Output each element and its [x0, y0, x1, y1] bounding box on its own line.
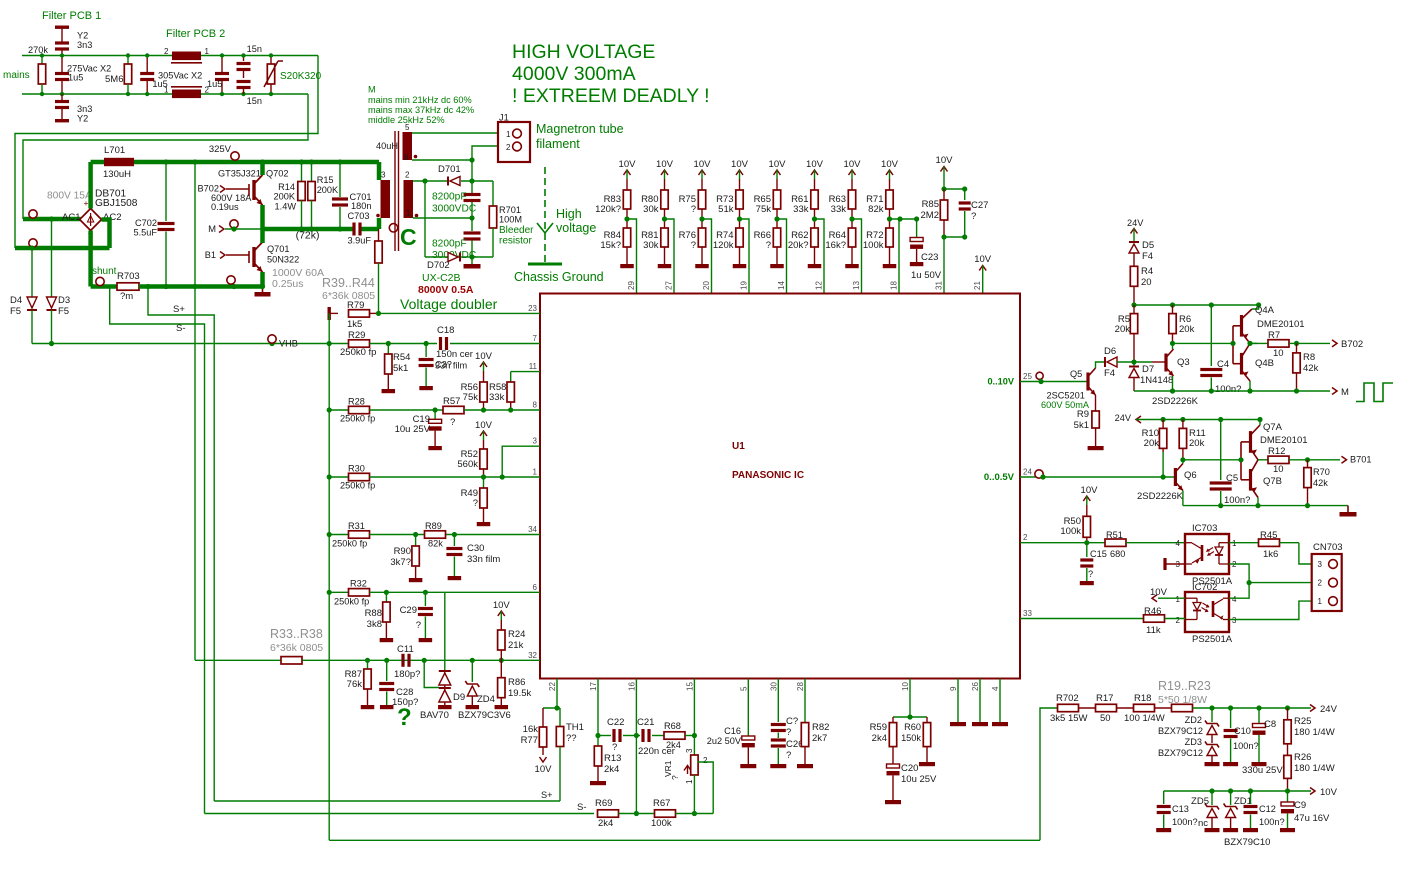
capacitor C701 180n	[339, 162, 341, 197]
ground R76	[701, 247, 703, 264]
wire pin3 row	[502, 446, 540, 477]
junction R65/R66	[776, 209, 778, 228]
resistor R50 100k	[1086, 505, 1088, 516]
svg-text:50N322: 50N322	[267, 255, 299, 265]
diode D701	[450, 177, 460, 186]
svg-text:C30: C30	[467, 543, 484, 554]
resistor R32 250k0 fp	[349, 589, 370, 596]
resistor R25 180 1/4W	[1287, 708, 1289, 720]
resistor R82 2k7	[804, 679, 806, 723]
ground pin 26	[979, 679, 981, 723]
svg-text:0.19us: 0.19us	[211, 202, 239, 212]
svg-text:R32: R32	[350, 579, 367, 589]
resistor R84 15k?	[623, 228, 630, 247]
svg-text:100n?: 100n?	[1215, 384, 1241, 395]
svg-text:2SC5201: 2SC5201	[1047, 391, 1085, 401]
svg-text:High: High	[556, 207, 582, 221]
terminal IC703 pin3	[1163, 558, 1166, 570]
capacitor 8200pF 3000VDC bottom	[471, 218, 473, 231]
wire AC1 row	[23, 217, 81, 222]
resistor R31 250k0 fp	[349, 531, 370, 538]
svg-text:3n3: 3n3	[77, 104, 92, 114]
svg-text:100k: 100k	[863, 240, 884, 251]
svg-text:BZX79C12: BZX79C12	[1158, 726, 1203, 736]
svg-text:M: M	[208, 224, 216, 235]
zener ZD3 BZX79C12	[1211, 735, 1213, 744]
svg-text:VR1: VR1	[663, 760, 673, 777]
capacitor C12 100n?	[1250, 791, 1252, 804]
svg-text:R79: R79	[347, 300, 364, 311]
svg-text:10V: 10V	[844, 159, 862, 170]
svg-text:2k4: 2k4	[604, 764, 619, 775]
svg-text:Filter PCB 1: Filter PCB 1	[42, 10, 101, 22]
svg-text:82k: 82k	[868, 204, 884, 215]
svg-text:C8: C8	[1264, 719, 1276, 730]
svg-text:R54: R54	[393, 352, 410, 363]
svg-text:6: 6	[533, 583, 538, 592]
svg-text:?: ?	[786, 750, 791, 761]
svg-text:PS2501A: PS2501A	[1192, 634, 1233, 645]
svg-text:10V: 10V	[656, 159, 674, 170]
transformer winding 40uH pins 5-6	[403, 132, 413, 160]
capacitor C5 100n?	[1220, 420, 1222, 481]
bridge rectifier DB701 GBJ1508	[80, 209, 102, 231]
wire left spine	[328, 313, 330, 840]
svg-text:C703: C703	[348, 211, 370, 221]
wire bus to primary	[377, 162, 382, 180]
wire to pin 13	[852, 219, 862, 294]
svg-text:680: 680	[1110, 549, 1125, 559]
resistor R85 2M2	[943, 176, 945, 190]
resistor R81 30k	[661, 228, 668, 247]
wire pin6 down to doubler	[471, 160, 473, 181]
wire AC2 to bridge	[102, 220, 110, 249]
wire 0..10V to Q5	[1020, 381, 1088, 383]
wire Q6 base row to Q7	[1183, 459, 1241, 461]
capacitor C26 ?	[771, 738, 786, 741]
transformer T core	[394, 131, 396, 251]
ground R62	[814, 247, 816, 264]
svg-text:3k8: 3k8	[367, 619, 382, 630]
svg-text:R701: R701	[499, 205, 521, 215]
svg-text:F4: F4	[1142, 251, 1153, 262]
wire M rail output	[1134, 390, 1330, 392]
wire C703 to primary	[362, 227, 380, 232]
resistor R12 10	[1258, 459, 1268, 461]
svg-text:1: 1	[1176, 595, 1181, 604]
svg-text:R90: R90	[394, 546, 411, 557]
svg-text:Q4A: Q4A	[1255, 305, 1275, 316]
svg-text:C?: C?	[786, 716, 798, 727]
svg-text:F5: F5	[58, 306, 69, 317]
inductor L701 130uH	[91, 160, 104, 165]
resistor R13 2k4	[597, 736, 599, 747]
junction R80/R81	[664, 209, 666, 228]
capacitor Y2 3n3 top	[55, 26, 69, 29]
svg-text:10V: 10V	[493, 600, 511, 611]
svg-text:C5: C5	[1226, 473, 1238, 484]
resistor R9 5k1	[1092, 411, 1099, 428]
transistor Q4B	[1240, 353, 1243, 375]
svg-text:10V: 10V	[731, 159, 749, 170]
svg-text:3000VDC: 3000VDC	[432, 204, 476, 215]
wire VHB row	[32, 343, 329, 345]
wire Q702 emitter to M rail	[260, 205, 265, 237]
resistor R66 ?	[773, 228, 780, 247]
wire to pin 18	[890, 219, 900, 294]
svg-text:DME20101: DME20101	[1260, 435, 1308, 446]
wire pin10 to R59 R60	[909, 679, 911, 718]
pad AC2 row	[29, 239, 37, 247]
svg-text:10V: 10V	[881, 159, 899, 170]
pad AC1	[29, 210, 37, 218]
inductor filter choke winding bottom	[172, 90, 201, 99]
wire to pin 12	[815, 219, 825, 294]
junction R71/R72	[889, 209, 891, 228]
svg-text:21: 21	[973, 281, 982, 290]
svg-text:2: 2	[1176, 616, 1181, 625]
zener ZD1	[1230, 791, 1232, 805]
transistor Q701 50N322	[248, 251, 250, 263]
svg-text:1: 1	[406, 209, 411, 218]
capacitor C23 1u 50V	[899, 218, 917, 220]
wire Q3 emitter	[1172, 376, 1174, 391]
svg-text:21k: 21k	[508, 640, 524, 651]
svg-text:?: ?	[473, 498, 478, 509]
svg-text:14: 14	[777, 281, 786, 290]
wire pin33 row	[1020, 618, 1143, 620]
resistor R6 20k	[1172, 305, 1174, 314]
svg-text:D9: D9	[453, 692, 465, 703]
svg-text:S-: S-	[577, 802, 587, 813]
resistor R51 680	[1105, 539, 1126, 546]
resistor R58 33k	[510, 372, 512, 382]
wire IC703 pin2 to CN703 pin2	[1229, 564, 1330, 583]
svg-text:(72k): (72k)	[296, 230, 320, 242]
resistor R703 shunt	[117, 283, 139, 290]
svg-text:24V: 24V	[1127, 218, 1144, 228]
wire to B701	[1308, 459, 1341, 461]
junction R63/R64	[851, 209, 853, 228]
wire Q6 rail to ground	[1183, 505, 1348, 507]
svg-text:330u 25V: 330u 25V	[1242, 765, 1283, 776]
svg-text:200K: 200K	[317, 185, 339, 195]
svg-text:?: ?	[450, 417, 455, 428]
svg-text:?: ?	[612, 742, 617, 753]
svg-text:10V: 10V	[1320, 787, 1338, 798]
resistor R49 ?	[483, 477, 485, 488]
svg-text:120k?: 120k?	[595, 204, 621, 215]
svg-text:R26: R26	[1294, 752, 1311, 763]
transistor Q4A	[1240, 315, 1243, 337]
transistor Q6 2SD2226K	[1174, 468, 1177, 486]
svg-text:30k: 30k	[643, 240, 659, 251]
svg-text:F4: F4	[1104, 368, 1115, 379]
capacitor C10 100n?	[1230, 708, 1232, 728]
svg-text:10V: 10V	[936, 155, 954, 166]
svg-text:Magnetron tube: Magnetron tube	[536, 122, 624, 136]
svg-text:8: 8	[533, 401, 538, 410]
resistor R30 250k0 fp	[349, 473, 370, 480]
svg-text:Q3: Q3	[1177, 357, 1190, 368]
svg-text:Chassis Ground: Chassis Ground	[514, 270, 604, 284]
pad VHB	[268, 335, 276, 343]
svg-text:250k0 fp: 250k0 fp	[340, 481, 375, 491]
svg-text:250k0 fp: 250k0 fp	[340, 414, 375, 424]
svg-text:10V: 10V	[475, 351, 493, 362]
svg-text:M: M	[1341, 387, 1349, 398]
svg-text:20: 20	[702, 281, 711, 290]
svg-text:10u 25V: 10u 25V	[901, 774, 937, 785]
svg-text:BZX79C10: BZX79C10	[1224, 837, 1270, 848]
resistor R19..R23 5*50 1/8W	[1172, 704, 1193, 711]
svg-text:R70: R70	[1313, 467, 1330, 477]
svg-text:100n?: 100n?	[1233, 741, 1259, 751]
svg-text:130uH: 130uH	[103, 169, 131, 180]
pad C node	[389, 224, 397, 232]
svg-text:UX-C2B: UX-C2B	[422, 272, 461, 284]
svg-text:R25: R25	[1294, 716, 1311, 727]
capacitor C3? 33n film	[425, 344, 427, 358]
svg-text:5M6: 5M6	[105, 74, 123, 85]
svg-text:7: 7	[533, 334, 538, 343]
svg-text:2: 2	[1318, 579, 1323, 588]
svg-text:6*36k 0805: 6*36k 0805	[270, 642, 323, 654]
diode D702 UX-C2B	[425, 256, 448, 258]
resistor R52 560k	[483, 440, 485, 449]
svg-text:180p?: 180p?	[394, 669, 420, 680]
svg-text:4: 4	[1176, 539, 1181, 548]
svg-text:?: ?	[1088, 569, 1093, 579]
svg-text:75k: 75k	[463, 392, 479, 403]
svg-text:Q7B: Q7B	[1263, 476, 1282, 487]
wire S- takeoff	[110, 287, 205, 814]
svg-text:?: ?	[397, 704, 412, 731]
svg-text:40uH: 40uH	[376, 141, 398, 151]
svg-text:R51: R51	[1106, 530, 1123, 540]
svg-text:2k7: 2k7	[812, 733, 827, 744]
svg-text:10V: 10V	[1081, 485, 1099, 496]
svg-text:150k: 150k	[901, 733, 921, 743]
capacitor 1u5 after choke	[221, 56, 223, 73]
svg-text:3: 3	[1232, 616, 1237, 625]
svg-text:15k?: 15k?	[600, 240, 621, 251]
wire mains top rail	[22, 55, 318, 57]
svg-text:3: 3	[1318, 560, 1323, 569]
wire secondary pin2 row	[413, 180, 447, 182]
svg-text:1: 1	[506, 130, 511, 139]
wire pin7 row R29	[329, 343, 348, 345]
svg-text:BZX79C12: BZX79C12	[1158, 748, 1203, 758]
ground doubler	[471, 257, 473, 264]
wire to pin 27	[665, 219, 675, 294]
resistor R26 180 1/4W	[1287, 744, 1289, 756]
capacitor C20 10u 25V	[892, 747, 894, 764]
svg-text:B702: B702	[198, 184, 219, 194]
wire DB701 plus to bus	[88, 162, 93, 209]
svg-text:ZD3: ZD3	[1185, 737, 1202, 747]
svg-text:ZD5: ZD5	[1191, 796, 1209, 807]
svg-text:33k: 33k	[793, 204, 809, 215]
svg-text:5.5uF: 5.5uF	[134, 228, 158, 238]
svg-text:10V: 10V	[769, 159, 787, 170]
junction D3 top	[49, 216, 54, 221]
svg-text:S-: S-	[176, 323, 186, 334]
svg-text:3: 3	[533, 437, 538, 446]
svg-text:8200pF: 8200pF	[432, 239, 467, 250]
svg-text:15n: 15n	[247, 44, 262, 54]
svg-text:150n cer: 150n cer	[436, 349, 473, 360]
resistor R701 100M bleeder	[492, 181, 494, 206]
resistor R61 33k	[814, 179, 816, 190]
diode D4 F5	[31, 248, 33, 297]
svg-text:10V: 10V	[535, 764, 553, 775]
chassis ground symbol	[528, 263, 562, 266]
wire S+ row	[214, 800, 560, 802]
pad B1 node	[227, 276, 235, 284]
svg-text:C16: C16	[724, 726, 741, 736]
svg-text:Y2: Y2	[77, 31, 88, 41]
wire pin23 row	[379, 312, 541, 314]
svg-text:AC1: AC1	[62, 212, 80, 223]
svg-text:?: ?	[971, 211, 976, 222]
svg-text:100n?: 100n?	[1259, 817, 1285, 827]
svg-text:C3?: C3?	[435, 360, 452, 370]
svg-text:5k1: 5k1	[1074, 420, 1089, 431]
svg-text:F5: F5	[10, 306, 21, 317]
wire Q702 collector	[260, 162, 265, 175]
resistor R8 42k	[1296, 343, 1298, 353]
svg-text:C: C	[400, 224, 417, 250]
connector J1	[498, 122, 530, 162]
svg-text:C29: C29	[400, 605, 417, 616]
wire Q4 output node	[1250, 342, 1258, 344]
svg-text:filament: filament	[536, 137, 580, 151]
resistor R10 20k	[1162, 420, 1164, 429]
svg-text:2: 2	[1023, 533, 1028, 542]
svg-text:S20K320: S20K320	[280, 71, 322, 82]
op-amp U1 PANASONIC IC	[540, 294, 1020, 679]
svg-text:mains max 37kHz dc 42%: mains max 37kHz dc 42%	[368, 105, 474, 115]
resistor R39..R44 6*36k 0805	[378, 229, 380, 241]
svg-text:??: ??	[566, 733, 577, 744]
capacitor C702 5.5uF	[165, 162, 167, 221]
resistor R69 2k4	[598, 810, 619, 817]
wire IC702 pin4 to node	[1229, 583, 1249, 599]
svg-text:shunt: shunt	[92, 266, 117, 277]
connector CN703	[1312, 554, 1342, 611]
svg-text:19: 19	[740, 281, 749, 290]
wire 24V node row	[1134, 304, 1259, 306]
svg-text:R24: R24	[508, 629, 525, 640]
svg-text:800V 15A: 800V 15A	[47, 191, 92, 202]
svg-text:0..0.5V: 0..0.5V	[984, 472, 1015, 483]
capacitor 15n bottom	[237, 80, 251, 83]
svg-text:100n?: 100n?	[1224, 495, 1250, 506]
resistor R18 100 1/4W	[1134, 704, 1155, 711]
svg-text:15n: 15n	[247, 96, 262, 106]
resistor R60 150k	[926, 717, 928, 723]
svg-text:270k: 270k	[28, 45, 48, 55]
wire 325V bus	[134, 160, 379, 165]
wire Q6 emitter to rail	[1182, 491, 1184, 506]
svg-text:10V: 10V	[619, 159, 637, 170]
resistor R74 120k	[736, 228, 743, 247]
resistor R79 1k5	[328, 307, 331, 320]
svg-text:2: 2	[164, 47, 169, 56]
capacitor C? ?	[777, 679, 779, 723]
svg-text:R703: R703	[117, 271, 140, 282]
svg-text:C13: C13	[1172, 804, 1189, 814]
svg-text:13: 13	[852, 281, 861, 290]
resistor R17 50	[1096, 704, 1117, 711]
wire filter output bottom	[23, 94, 308, 219]
ground R81	[664, 247, 666, 264]
wire S+ takeoff	[148, 287, 214, 802]
svg-text:5k1: 5k1	[393, 363, 408, 374]
svg-text:75k: 75k	[756, 204, 772, 215]
diode D9 BAV70	[424, 660, 439, 687]
transistor pair Q4A Q4B DME20101	[1232, 326, 1234, 364]
capacitor X2 305Vac 1u5	[146, 56, 148, 73]
svg-text:Q7A: Q7A	[1263, 422, 1283, 433]
svg-text:IC703: IC703	[1192, 523, 1217, 534]
svg-text:10u 25V: 10u 25V	[395, 424, 431, 435]
svg-text:R88: R88	[365, 608, 382, 619]
svg-text:C10: C10	[1234, 726, 1251, 736]
svg-text:82k: 82k	[428, 539, 443, 549]
junction R73/R74	[739, 209, 741, 228]
wire R45 to CN703 pin3	[1299, 543, 1330, 564]
ground R74	[739, 247, 741, 264]
zener ZD2 BZX79C12	[1211, 708, 1213, 722]
svg-text:D6: D6	[1104, 346, 1116, 357]
wire to pin 20	[702, 219, 712, 294]
svg-text:100k: 100k	[1060, 526, 1081, 537]
capacitor Y2 3n3 bottom	[61, 94, 63, 100]
resistor R77 16k	[543, 707, 560, 709]
svg-text:2u2 50V: 2u2 50V	[707, 736, 742, 746]
wire filament pin5 to J1	[412, 132, 505, 134]
capacitor C8 330u 25V	[1258, 708, 1260, 724]
resistor R64 16k?	[848, 228, 855, 247]
svg-text:9: 9	[949, 686, 958, 691]
wire VR1 pin2	[698, 762, 714, 814]
svg-text:1k5: 1k5	[347, 319, 362, 330]
svg-text:?: ?	[691, 204, 696, 215]
svg-text:0..10V: 0..10V	[987, 377, 1014, 387]
junction D4 top	[29, 245, 34, 250]
wire Q3 base	[1134, 361, 1152, 363]
wire R32 row to D9	[444, 592, 446, 671]
svg-text:12: 12	[815, 281, 824, 290]
capacitor C11 180p?	[401, 654, 404, 667]
svg-text:B702: B702	[1341, 339, 1363, 350]
svg-text:Q4B: Q4B	[1255, 358, 1274, 369]
wire to B702	[1297, 342, 1331, 344]
wire Q5 emitter to R9	[1095, 395, 1097, 411]
svg-text:3n3: 3n3	[77, 40, 92, 50]
svg-text:50: 50	[1100, 713, 1111, 724]
ground Q701 emitter	[262, 287, 264, 293]
svg-text:16k?: 16k?	[825, 240, 846, 251]
svg-text:76k: 76k	[347, 679, 363, 690]
capacitor C30 33n film	[453, 535, 455, 547]
svg-text:R86: R86	[508, 677, 525, 688]
supply 24V output	[1310, 705, 1315, 712]
resistor R56 75k	[483, 371, 485, 382]
capacitor C13 100n? nc	[1163, 791, 1165, 804]
